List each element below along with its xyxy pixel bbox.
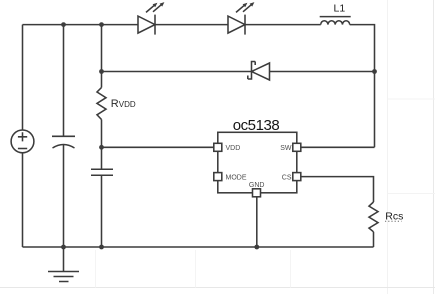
junction node bottom rail at C1 [61,245,66,250]
LED D2 arrowhead 1 [243,3,248,8]
junction node bottom rail at RVDD column [99,245,104,250]
faint table grid line vertical bottom x=95 [95,250,97,288]
wire CS pin to Rcs [301,177,374,202]
LED D2 arrow 2 [243,4,252,12]
faint table grid line vertical right x=387 [387,0,389,294]
svg-text:oc5138: oc5138 [233,117,280,134]
LED D1 arrowhead 1 [153,3,158,8]
wire Rcs bottom lead [373,232,375,247]
wire RVDD column bottom [101,175,103,247]
IC U1 pin square VDD [214,143,222,151]
capacitor C2 top plate [91,168,113,170]
junction node bottom rail at GND wire [254,245,259,250]
faint table grid line vertical bottom x=290 [290,250,292,288]
voltage source minus sign [18,148,27,150]
svg-text:CS: CS [282,174,292,181]
inductor L1 bar [320,16,351,18]
svg-text:VDD: VDD [226,145,241,152]
LED D2 arrow 1 [236,5,245,13]
LED D2 cathode bar [244,15,246,35]
faint table grid line vertical bottom x=195 [195,250,197,288]
inductor L1 coil [321,21,350,25]
schottky diode D3 cathode bar with hooks [248,62,255,80]
capacitor C1 top plate [52,135,75,137]
LED D1 triangle [138,16,155,33]
svg-text:SW: SW [280,145,292,152]
resistor RVDD zigzag [97,88,106,120]
capacitor C2 bottom plate [91,174,113,176]
ground symbol [48,247,79,282]
wire RVDD column middle [101,120,103,170]
wire left vertical below source [22,153,24,247]
LED D1 arrow 1 [146,5,155,13]
svg-text:MODE: MODE [226,174,247,181]
LED D1 arrowhead 2 [160,2,165,7]
LED D1 cathode bar [154,15,156,35]
wire C1 branch lower [63,144,65,247]
wire left vertical above source [22,25,24,130]
svg-text:GND: GND [249,182,265,189]
wire GND pin down [256,197,258,247]
schottky diode D3 triangle [252,63,270,80]
wire schottky anode side [270,71,375,73]
wire RVDD column top [101,25,103,88]
IC U1 pin square CS [293,173,301,181]
capacitor C1 curved plate [53,145,75,149]
svg-text:Rcs: Rcs [385,211,403,223]
label Rcs dotted underline [385,220,402,222]
IC U1 pin square GND [253,189,261,197]
wire between LED1 and LED2 [155,24,228,26]
LED D2 arrowhead 2 [250,2,255,7]
faint table grid line horizontal y=287 [0,287,435,289]
junction node top wire at C1 [61,22,66,27]
LED D2 triangle [228,16,245,33]
svg-text:RVDD: RVDD [111,98,136,110]
wire schottky cathode side [102,71,252,73]
wire LED2 to inductor [245,24,321,26]
LED D1 arrow 2 [153,4,162,12]
junction node schottky anode at right vertical [372,69,377,74]
junction node top wire at RVDD [99,22,104,27]
voltage source plus sign [18,132,27,141]
IC U1 pin square MODE [214,173,222,181]
wire SW pin to right vertical [301,146,375,148]
wire top left segment [23,24,139,26]
junction node schottky wire at RVDD column [99,69,104,74]
wire bottom rail [23,246,374,248]
IC U1 pin square SW [293,143,301,151]
junction node VDD wire at RVDD column [99,145,104,150]
wire inductor to top right corner, down right vertical [350,25,375,148]
faint table grid line vertical far right x=433 [433,0,435,294]
faint table grid line horizontal right y=193 [388,193,435,195]
IC U1 body outline [218,132,297,193]
faint table grid line horizontal right y=99 [388,98,435,100]
wire VDD pin to RVDD column [102,146,214,148]
wire C1 branch upper [63,25,65,137]
voltage source V1 circle [11,130,34,153]
resistor Rcs zigzag [369,202,378,232]
svg-text:L1: L1 [334,3,346,15]
